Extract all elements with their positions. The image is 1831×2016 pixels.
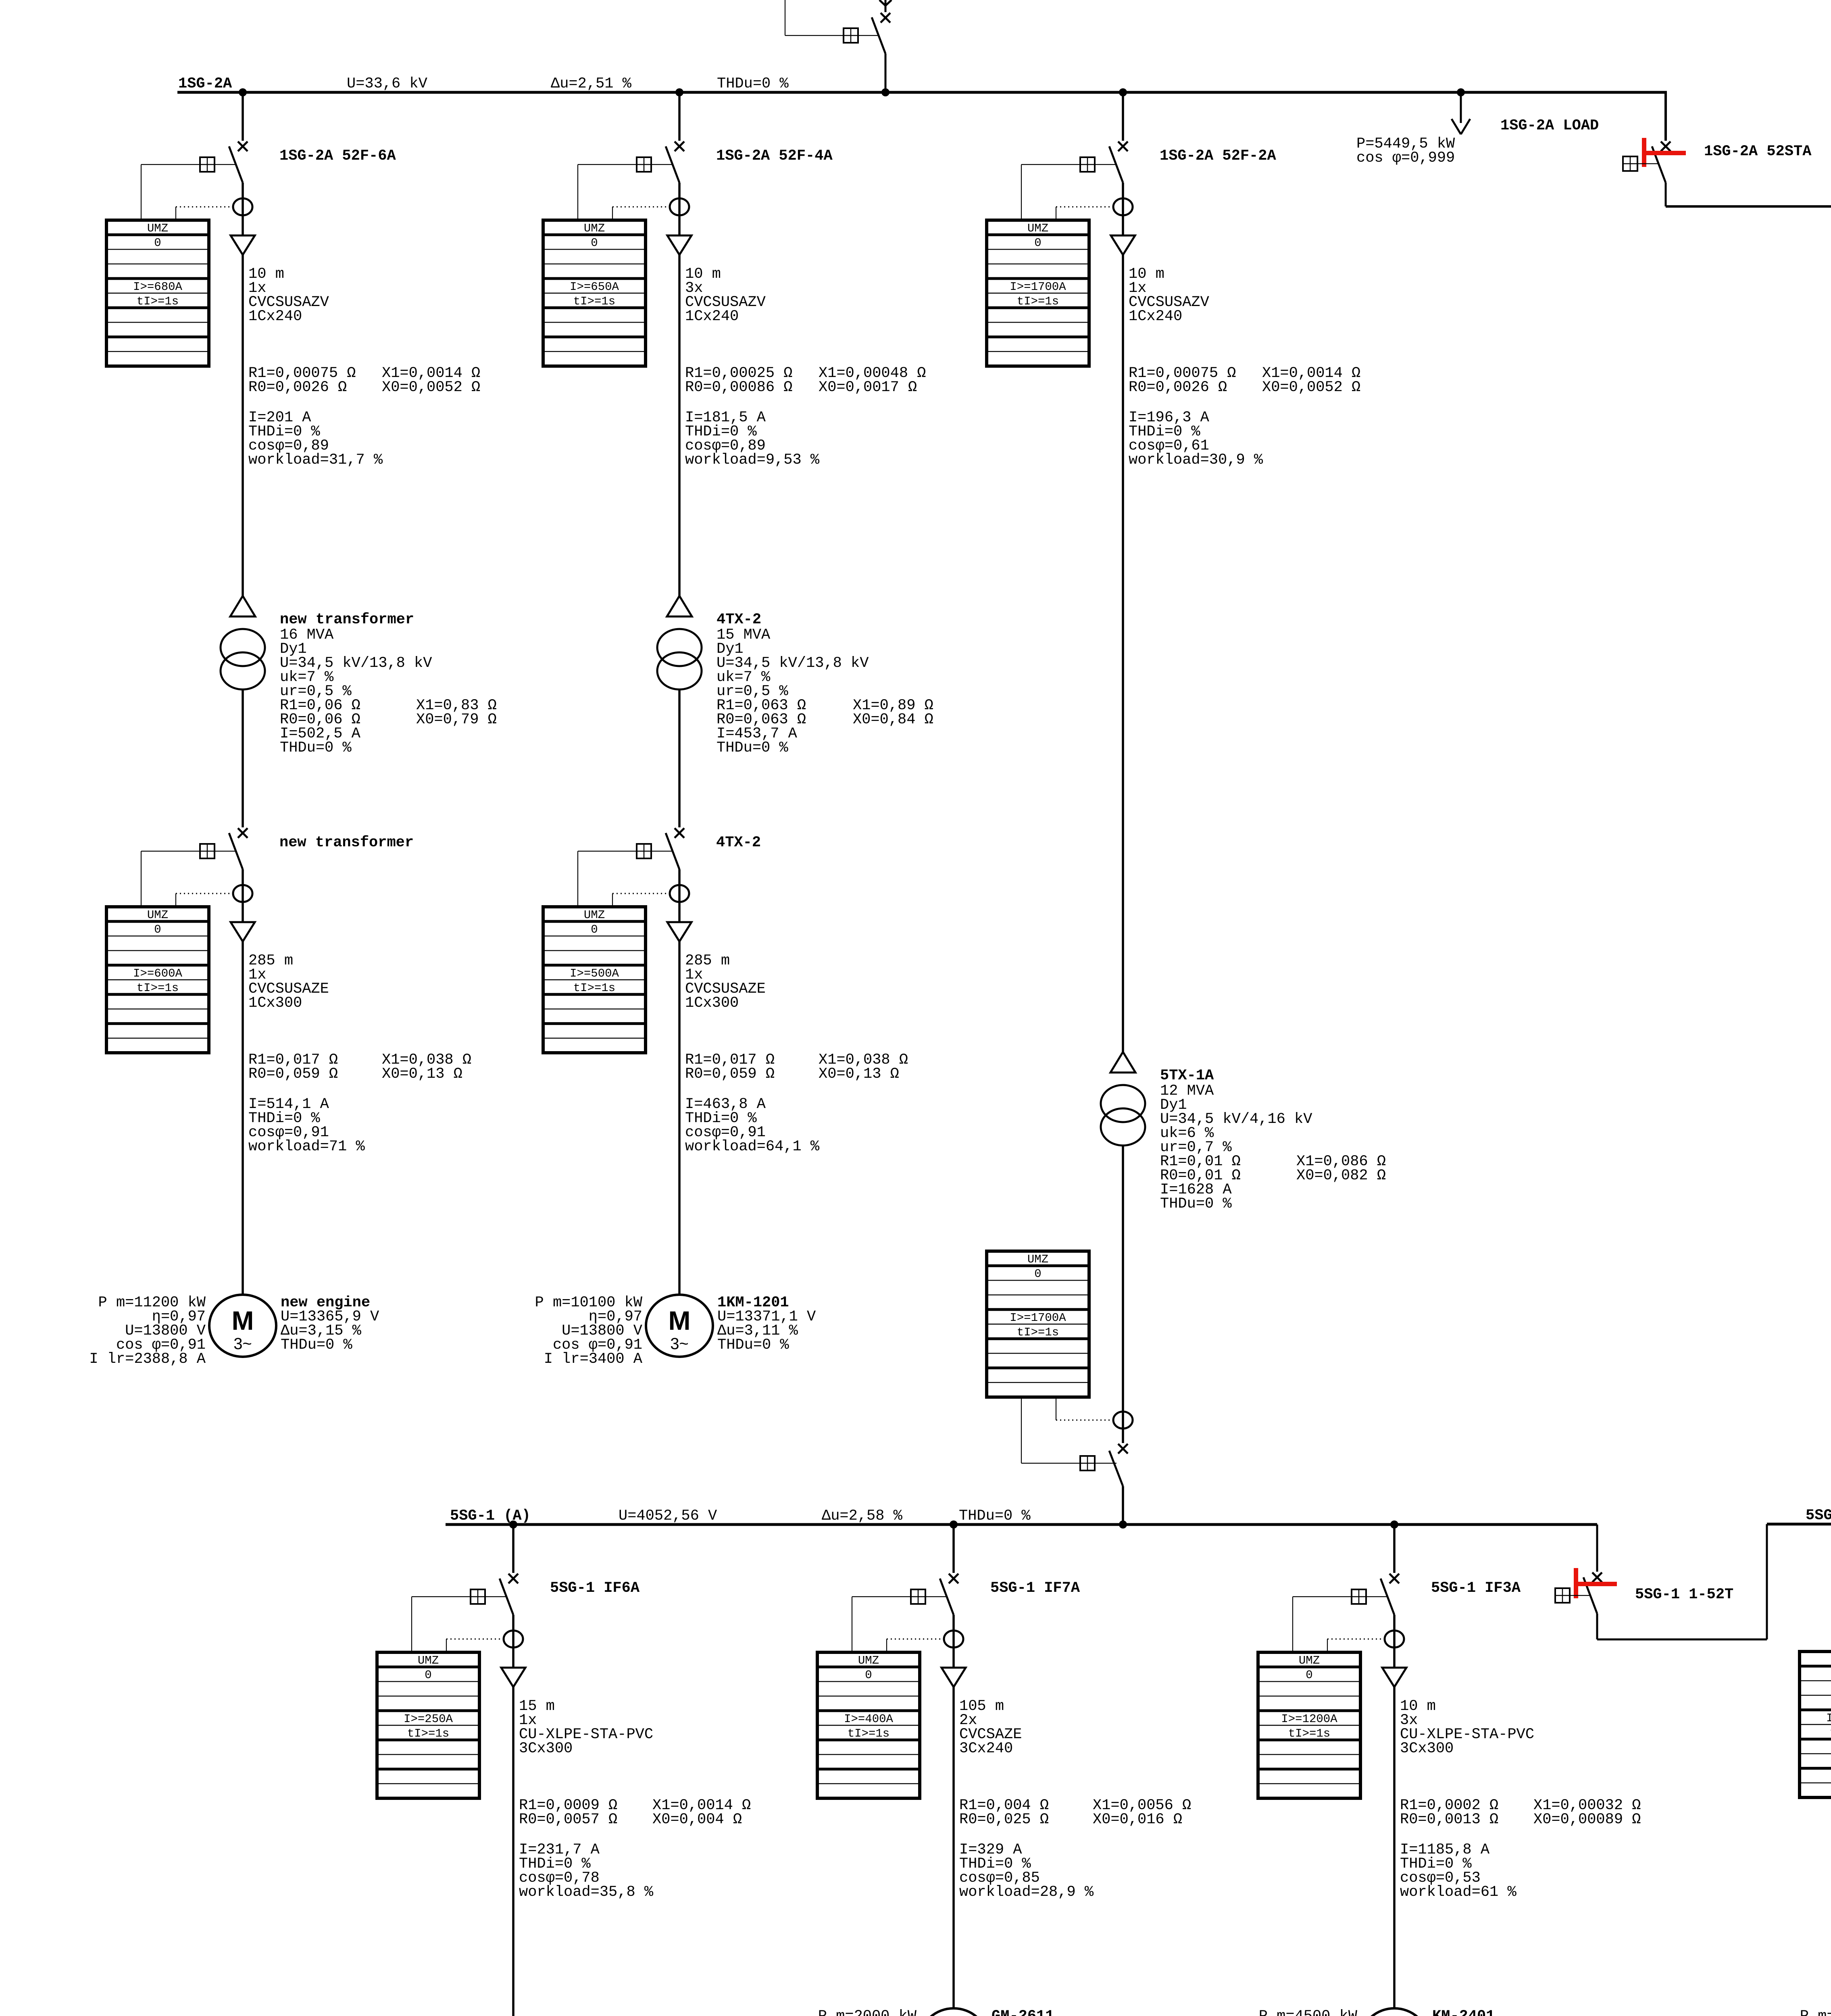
CT wire IF3A — [1327, 1639, 1384, 1652]
relay UMZ 52F-6A — [106, 220, 209, 366]
CT wire IF6A — [446, 1639, 503, 1652]
svg-text:5SG-1 IF6A: 5SG-1 IF6A — [550, 1580, 640, 1597]
svg-text:I lr=3400 A: I lr=3400 A — [544, 1351, 643, 1368]
svg-text:1Cx240: 1Cx240 — [1129, 308, 1182, 325]
motor GM-2611 symbol — [920, 2008, 987, 2016]
svg-text:X0=0,13 Ω: X0=0,13 Ω — [382, 1066, 462, 1083]
bus 1SG-2A — [177, 91, 1667, 94]
label 5SG-1 IF7A — [990, 1580, 1080, 1597]
bus data THDu 1SG-2A — [717, 75, 789, 92]
cable impedance IF6A — [519, 1797, 751, 1828]
svg-text:workload=35,8 %: workload=35,8 % — [519, 1884, 654, 1901]
svg-text:0: 0 — [591, 923, 598, 936]
svg-text:1Cx240: 1Cx240 — [248, 308, 302, 325]
svg-text:I>=1700A: I>=1700A — [1010, 280, 1066, 294]
bus 5SG-1 (A) — [446, 1523, 1597, 1526]
CT wire 5TX-1A LV — [1056, 1397, 1112, 1420]
cable arrow IF3A — [1382, 1639, 1406, 1687]
cable label IF6A — [519, 1698, 653, 1757]
svg-text:workload=71 %: workload=71 % — [248, 1138, 365, 1155]
svg-text:UMZ: UMZ — [858, 1654, 879, 1667]
svg-text:tI>=1s: tI>=1s — [573, 981, 615, 995]
svg-text:workload=28,9 %: workload=28,9 % — [959, 1884, 1094, 1901]
cable label 52F-6A — [248, 266, 329, 325]
svg-text:THDu=0 %: THDu=0 % — [1160, 1195, 1232, 1212]
svg-text:tI>=1s: tI>=1s — [1017, 1326, 1059, 1339]
cable label 52F-2A — [1129, 266, 1209, 325]
motor 1KM-1201 result data — [717, 1294, 816, 1354]
wire cable to motor 1KM-1201 — [678, 941, 681, 1295]
relay UMZ 52F-4A — [543, 220, 646, 366]
cable label IF3A — [1400, 1698, 1534, 1757]
node bus1-52F-6A — [239, 88, 247, 96]
relay link 5TX-1A LV — [1021, 1397, 1117, 1470]
svg-text:5SG: 5SG — [1806, 1507, 1831, 1524]
svg-text:X0=0,004 Ω: X0=0,004 Ω — [652, 1811, 742, 1828]
transformer data 4TX-2 — [717, 611, 933, 756]
cable arrow 4TX-2 LV — [667, 893, 692, 941]
svg-text:X0=0,79 Ω: X0=0,79 Ω — [416, 711, 497, 728]
cable arrow 52F-6A — [231, 207, 255, 255]
motor KM-2401 result data — [1432, 2008, 1531, 2016]
svg-text:1Cx300: 1Cx300 — [685, 995, 739, 1012]
svg-text:cos φ=0,999: cos φ=0,999 — [1356, 150, 1455, 167]
node incoming-bus1 — [881, 88, 889, 96]
motor GM-2611 result data — [992, 2008, 1090, 2016]
relay link 52F-6A — [141, 157, 236, 220]
cable impedance 285m F2 — [685, 1052, 908, 1083]
relay link IF7A — [852, 1589, 947, 1652]
motor new engine symbol — [209, 1295, 276, 1357]
CT wire IF7A — [887, 1639, 943, 1652]
svg-text:R0=0,0013 Ω: R0=0,0013 Ω — [1400, 1811, 1498, 1828]
CT IF7A — [944, 1631, 963, 1647]
svg-text:I>=600A: I>=600A — [133, 967, 182, 980]
svg-text:workload=61 %: workload=61 % — [1400, 1884, 1516, 1901]
cable arrow IF7A — [942, 1639, 966, 1687]
svg-text:3Cx300: 3Cx300 — [519, 1740, 573, 1757]
svg-text:UMZ: UMZ — [418, 1654, 439, 1667]
motor 1KM-1201 symbol — [646, 1295, 713, 1357]
circuit breaker 5TX-1A LV — [1109, 1444, 1128, 1486]
wire 1-52T to bus 5SG-2 — [1597, 1524, 1767, 1639]
svg-text:workload=9,53 %: workload=9,53 % — [685, 452, 820, 469]
CT IF3A — [1385, 1631, 1404, 1647]
svg-text:workload=64,1 %: workload=64,1 % — [685, 1138, 820, 1155]
label 5SG-1 1-52T — [1635, 1586, 1733, 1603]
svg-text:THDu=0 %: THDu=0 % — [280, 739, 352, 756]
svg-text:tI>=1s: tI>=1s — [137, 981, 179, 995]
cable impedance IF3A — [1400, 1797, 1641, 1828]
relay link IF6A — [412, 1589, 507, 1652]
transformer symbol 4TX-2 — [657, 596, 702, 689]
relay UMZ 4TX-2 LV — [543, 907, 646, 1053]
svg-text:THDu=0 %: THDu=0 % — [717, 739, 788, 756]
svg-text:3Cx300: 3Cx300 — [1400, 1740, 1454, 1757]
svg-text:I>=400A: I>=400A — [844, 1712, 893, 1726]
circuit breaker 1SG-2A 52F-4A — [666, 142, 684, 207]
cable arrow 52F-4A — [667, 207, 692, 255]
CT wire 52F-6A — [176, 207, 232, 220]
svg-text:R0=0,00086 Ω: R0=0,00086 Ω — [685, 379, 792, 396]
node bus1-load — [1457, 88, 1465, 96]
node bus1-52F-4A — [675, 88, 683, 96]
CT wire 4TX-2 LV — [612, 893, 669, 907]
label 1SG-2A 52F-2A — [1160, 148, 1276, 165]
cable label 52F-4A — [685, 266, 766, 325]
svg-text:5SG-1 IF7A: 5SG-1 IF7A — [990, 1580, 1080, 1597]
svg-text:Δu=2,51 %: Δu=2,51 % — [551, 75, 632, 92]
motor GM-2611 input data — [818, 2008, 917, 2016]
cable load 285m F2 — [685, 1096, 820, 1155]
circuit breaker 1SG-2A 52F-6A — [229, 142, 248, 207]
motor right input data — [1800, 2008, 1831, 2016]
svg-text:5SG-1 (A): 5SG-1 (A) — [450, 1508, 531, 1524]
CT 5TX-1A LV — [1113, 1412, 1133, 1429]
svg-text:THDu=0 %: THDu=0 % — [281, 1337, 352, 1354]
svg-text:1SG-2A 52F-2A: 1SG-2A 52F-2A — [1160, 148, 1276, 165]
svg-text:Δu=2,58 %: Δu=2,58 % — [822, 1508, 903, 1524]
svg-text:I>=500A: I>=500A — [570, 967, 619, 980]
label 4TX-2 LV — [716, 834, 761, 851]
wire bus1 to 52STA — [1664, 92, 1667, 141]
svg-text:0: 0 — [154, 923, 161, 936]
transformer symbol 5TX-1A — [1101, 1052, 1145, 1145]
svg-text:new transformer: new transformer — [279, 834, 414, 851]
circuit breaker 4TX-2 LV — [666, 828, 684, 893]
svg-text:workload=31,7 %: workload=31,7 % — [248, 452, 383, 469]
relay UMZ 5TX-1A LV — [987, 1251, 1089, 1397]
svg-text:X0=0,84 Ω: X0=0,84 Ω — [853, 711, 933, 728]
svg-text:1SG-2A 52STA: 1SG-2A 52STA — [1704, 143, 1812, 160]
svg-text:X0=0,0017 Ω: X0=0,0017 Ω — [819, 379, 917, 396]
svg-text:UMZ: UMZ — [147, 222, 168, 235]
cable load data 52F-6A — [248, 409, 383, 469]
bus label 5SG right — [1806, 1507, 1831, 1524]
bus data U 1SG-2A — [347, 75, 427, 92]
svg-text:0: 0 — [1306, 1668, 1312, 1682]
svg-text:UMZ: UMZ — [147, 908, 168, 922]
cable label 285m F1 — [248, 952, 329, 1012]
svg-text:1SG-2A 52F-4A: 1SG-2A 52F-4A — [716, 148, 833, 165]
bus data du 1SG-2A — [551, 75, 632, 92]
svg-text:0: 0 — [1034, 1267, 1041, 1281]
svg-text:X0=0,016 Ω: X0=0,016 Ω — [1093, 1811, 1182, 1828]
svg-text:5SG-1 IF3A: 5SG-1 IF3A — [1431, 1580, 1521, 1597]
svg-text:X0=0,13 Ω: X0=0,13 Ω — [819, 1066, 899, 1083]
CT 4TX-2 LV — [670, 885, 689, 902]
wire 52F-2A from bus — [1122, 92, 1124, 141]
label 5SG-1 IF6A — [550, 1580, 640, 1597]
cable load data IF7A — [959, 1841, 1094, 1901]
svg-text:0: 0 — [865, 1668, 872, 1682]
wire transformer to breaker 4TX-2 — [678, 689, 681, 827]
bus 5SG right — [1767, 1523, 1831, 1526]
tie breaker 5SG-1 1-52T — [1583, 1572, 1602, 1639]
svg-text:X0=0,0052 Ω: X0=0,0052 Ω — [1262, 379, 1360, 396]
wire IF6A to 5MC-2A — [512, 1687, 515, 2016]
motor 1KM-1201 input data — [535, 1294, 643, 1368]
label 5SG-1 IF3A — [1431, 1580, 1521, 1597]
relay link IF3A — [1293, 1589, 1388, 1652]
relay UMZ new transformer LV — [106, 907, 209, 1053]
tie breaker 1SG-2A 52STA — [1652, 142, 1671, 206]
svg-text:I>=600A: I>=600A — [1826, 1712, 1831, 1725]
CT wire 52F-2A — [1056, 207, 1112, 220]
label 1SG-2A 52STA — [1704, 143, 1812, 160]
wire 52STA to offpage — [1666, 205, 1831, 208]
svg-text:I>=650A: I>=650A — [570, 280, 619, 294]
relay link 52F-4A — [578, 157, 673, 220]
svg-text:I>=1200A: I>=1200A — [1281, 1712, 1337, 1726]
wire 5TX-1A to LV breaker — [1122, 1145, 1124, 1443]
wire transformer to breaker new transformer — [242, 689, 244, 827]
svg-text:THDu=0 %: THDu=0 % — [717, 1337, 789, 1354]
svg-text:P m=2000 kW: P m=2000 kW — [818, 2008, 917, 2016]
bus label 5SG-1 (A) — [450, 1508, 531, 1524]
label new transformer LV — [279, 834, 414, 851]
svg-text:P m=4500 kW: P m=4500 kW — [1800, 2008, 1831, 2016]
motor new engine input data — [89, 1294, 206, 1368]
CT 52F-6A — [233, 198, 252, 215]
svg-text:I lr=2388,8 A: I lr=2388,8 A — [89, 1351, 206, 1368]
bus data U 5SG-1 — [619, 1508, 717, 1524]
relay UMZ 52F-2A — [987, 220, 1089, 366]
svg-text:UMZ: UMZ — [584, 222, 605, 235]
circuit breaker 1SG-2A 52F-2A — [1109, 142, 1128, 207]
CT IF6A — [504, 1631, 523, 1647]
svg-text:UMZ: UMZ — [584, 908, 605, 922]
cable label 285m F2 — [685, 952, 766, 1012]
bus data THDu 5SG-1 — [959, 1508, 1031, 1524]
svg-text:U=4052,56 V: U=4052,56 V — [619, 1508, 717, 1524]
CT 52F-2A — [1113, 198, 1133, 215]
svg-text:4TX-2: 4TX-2 — [717, 611, 761, 628]
load data 1SG-2A LOAD — [1356, 135, 1455, 167]
svg-text:X0=0,00089 Ω: X0=0,00089 Ω — [1533, 1811, 1641, 1828]
label 1SG-2A 52F-6A — [279, 148, 396, 165]
svg-text:tI>=1s: tI>=1s — [848, 1727, 889, 1740]
circuit breaker 5SG-1 IF7A — [940, 1574, 958, 1639]
svg-text:1SG-2A: 1SG-2A — [178, 75, 232, 92]
motor new engine result data — [281, 1294, 379, 1354]
CT 52F-4A — [670, 198, 689, 215]
wire IF3A from bus — [1393, 1524, 1396, 1573]
transformer data 5TX-1A — [1160, 1067, 1386, 1212]
svg-text:tI>=1s: tI>=1s — [1017, 295, 1059, 308]
wire bus2 to 1-52T — [1596, 1524, 1598, 1572]
svg-text:R0=0,059 Ω: R0=0,059 Ω — [248, 1066, 338, 1083]
svg-text:3~: 3~ — [670, 1335, 689, 1353]
svg-text:1SG-2A LOAD: 1SG-2A LOAD — [1500, 117, 1599, 134]
cable arrow 52F-2A — [1111, 207, 1135, 255]
cable impedance 52F-4A — [685, 365, 926, 396]
transformer symbol new transformer — [221, 596, 265, 689]
relay UMZ IF7A — [817, 1652, 920, 1798]
wire IF3A to motor — [1393, 1687, 1396, 2008]
wire cable to motor new engine — [242, 941, 244, 1295]
incoming relay link — [785, 0, 878, 43]
cable impedance 285m F1 — [248, 1052, 471, 1083]
svg-text:GM-2611: GM-2611 — [992, 2008, 1054, 2016]
cable label IF7A — [959, 1698, 1022, 1757]
CT wire 52F-4A — [612, 207, 669, 220]
svg-text:UMZ: UMZ — [1027, 1253, 1048, 1266]
svg-text:M: M — [669, 1306, 691, 1335]
open flag 1SG-2A 52STA — [1642, 138, 1686, 167]
svg-text:0: 0 — [425, 1668, 431, 1682]
cable load data IF6A — [519, 1841, 654, 1901]
relay link 4TX-2 LV — [578, 844, 673, 907]
transformer data new transformer — [280, 611, 497, 756]
svg-text:new transformer: new transformer — [280, 611, 414, 628]
svg-text:0: 0 — [154, 236, 161, 250]
node bus2-IF3A — [1390, 1520, 1398, 1529]
cable arrow new transformer LV — [231, 893, 255, 941]
svg-text:I>=1700A: I>=1700A — [1010, 1311, 1066, 1325]
svg-text:R0=0,0026 Ω: R0=0,0026 Ω — [1129, 379, 1227, 396]
relay link 52F-2A — [1021, 157, 1117, 220]
svg-text:0: 0 — [1034, 236, 1041, 250]
load 1SG-2A LOAD arrow — [1452, 92, 1470, 134]
cable impedance IF7A — [959, 1797, 1191, 1828]
motor KM-2401 input data — [1259, 2008, 1358, 2016]
svg-text:X0=0,082 Ω: X0=0,082 Ω — [1296, 1167, 1386, 1184]
svg-text:4TX-2: 4TX-2 — [716, 834, 761, 851]
wire 52F-4A from bus — [678, 92, 681, 141]
svg-text:3~: 3~ — [233, 1335, 252, 1353]
svg-text:1Cx300: 1Cx300 — [248, 995, 302, 1012]
wire IF7A from bus — [952, 1524, 955, 1573]
svg-text:M: M — [232, 1306, 254, 1335]
svg-text:3Cx240: 3Cx240 — [959, 1740, 1013, 1757]
svg-text:5SG-1 1-52T: 5SG-1 1-52T — [1635, 1586, 1733, 1603]
svg-text:1SG-2A 52F-6A: 1SG-2A 52F-6A — [279, 148, 396, 165]
CT wire new transformer LV — [176, 893, 232, 907]
wire 52F-4A to transformer — [678, 255, 681, 596]
circuit breaker 5SG-1 IF3A — [1381, 1574, 1399, 1639]
wire 5TX-1A breaker to bus 5SG-1 — [1122, 1486, 1124, 1524]
incoming source arrow — [879, 0, 892, 12]
wire 52F-2A to transformer 5TX-1A — [1122, 255, 1124, 1052]
svg-text:THDu=0 %: THDu=0 % — [959, 1508, 1031, 1524]
bus data du 5SG-1 — [822, 1508, 903, 1524]
svg-text:R0=0,059 Ω: R0=0,059 Ω — [685, 1066, 775, 1083]
svg-text:tI>=1s: tI>=1s — [407, 1727, 449, 1740]
svg-text:UMZ: UMZ — [1299, 1654, 1320, 1667]
svg-text:X0=0,0052 Ω: X0=0,0052 Ω — [382, 379, 480, 396]
svg-text:0: 0 — [591, 236, 598, 250]
node 5TX1A-bus2 — [1119, 1520, 1127, 1529]
relay UMZ IF6A — [377, 1652, 479, 1798]
cable impedance 52F-2A — [1129, 365, 1360, 396]
node bus1-52F-2A — [1119, 88, 1127, 96]
cable load 285m F1 — [248, 1096, 365, 1155]
relay link 52STA — [1623, 156, 1658, 171]
open flag 5SG-1 1-52T — [1574, 1568, 1617, 1598]
wire IF7A to motor — [952, 1687, 955, 2008]
wire 52F-6A from bus — [242, 92, 244, 141]
node bus2-IF7A — [950, 1520, 958, 1529]
wire 52F-6A to transformer — [242, 255, 244, 596]
label 1SG-2A 52F-4A — [716, 148, 833, 165]
cable impedance 52F-6A — [248, 365, 480, 396]
CT new transformer LV — [233, 885, 252, 902]
svg-text:5TX-1A: 5TX-1A — [1160, 1067, 1214, 1084]
cable load data 52F-4A — [685, 409, 820, 469]
label 1SG-2A LOAD — [1500, 117, 1599, 134]
svg-text:I>=680A: I>=680A — [133, 280, 182, 294]
svg-text:U=33,6 kV: U=33,6 kV — [347, 75, 427, 92]
svg-text:tI>=1s: tI>=1s — [1288, 1727, 1330, 1740]
circuit breaker 5SG-1 IF6A — [500, 1574, 518, 1639]
svg-text:tI>=1s: tI>=1s — [137, 295, 179, 308]
svg-text:1Cx240: 1Cx240 — [685, 308, 739, 325]
circuit breaker new transformer LV — [229, 828, 248, 893]
svg-text:THDu=0 %: THDu=0 % — [717, 75, 789, 92]
motor KM-2401 symbol — [1361, 2008, 1428, 2016]
cable load data IF3A — [1400, 1841, 1516, 1901]
svg-text:P m=4500 kW: P m=4500 kW — [1259, 2008, 1358, 2016]
svg-text:I>=250A: I>=250A — [404, 1712, 453, 1726]
incoming breaker — [872, 13, 890, 92]
relay UMZ right feeder — [1800, 1652, 1831, 1797]
svg-text:R0=0,0026 Ω: R0=0,0026 Ω — [248, 379, 347, 396]
svg-text:KM-2401: KM-2401 — [1432, 2008, 1495, 2016]
node bus2-IF6A — [509, 1520, 517, 1529]
svg-text:R0=0,025 Ω: R0=0,025 Ω — [959, 1811, 1049, 1828]
cable arrow IF6A — [501, 1639, 525, 1687]
wire IF6A from bus — [512, 1524, 515, 1573]
cable load data 52F-2A — [1129, 409, 1263, 469]
relay link new transformer LV — [141, 844, 236, 907]
svg-text:R0=0,0057 Ω: R0=0,0057 Ω — [519, 1811, 617, 1828]
bus label 1SG-2A — [178, 75, 232, 92]
svg-text:workload=30,9 %: workload=30,9 % — [1129, 452, 1263, 469]
relay UMZ IF3A — [1258, 1652, 1360, 1798]
svg-text:tI>=1s: tI>=1s — [573, 295, 615, 308]
relay link 1-52T — [1555, 1588, 1590, 1603]
svg-text:UMZ: UMZ — [1027, 222, 1048, 235]
